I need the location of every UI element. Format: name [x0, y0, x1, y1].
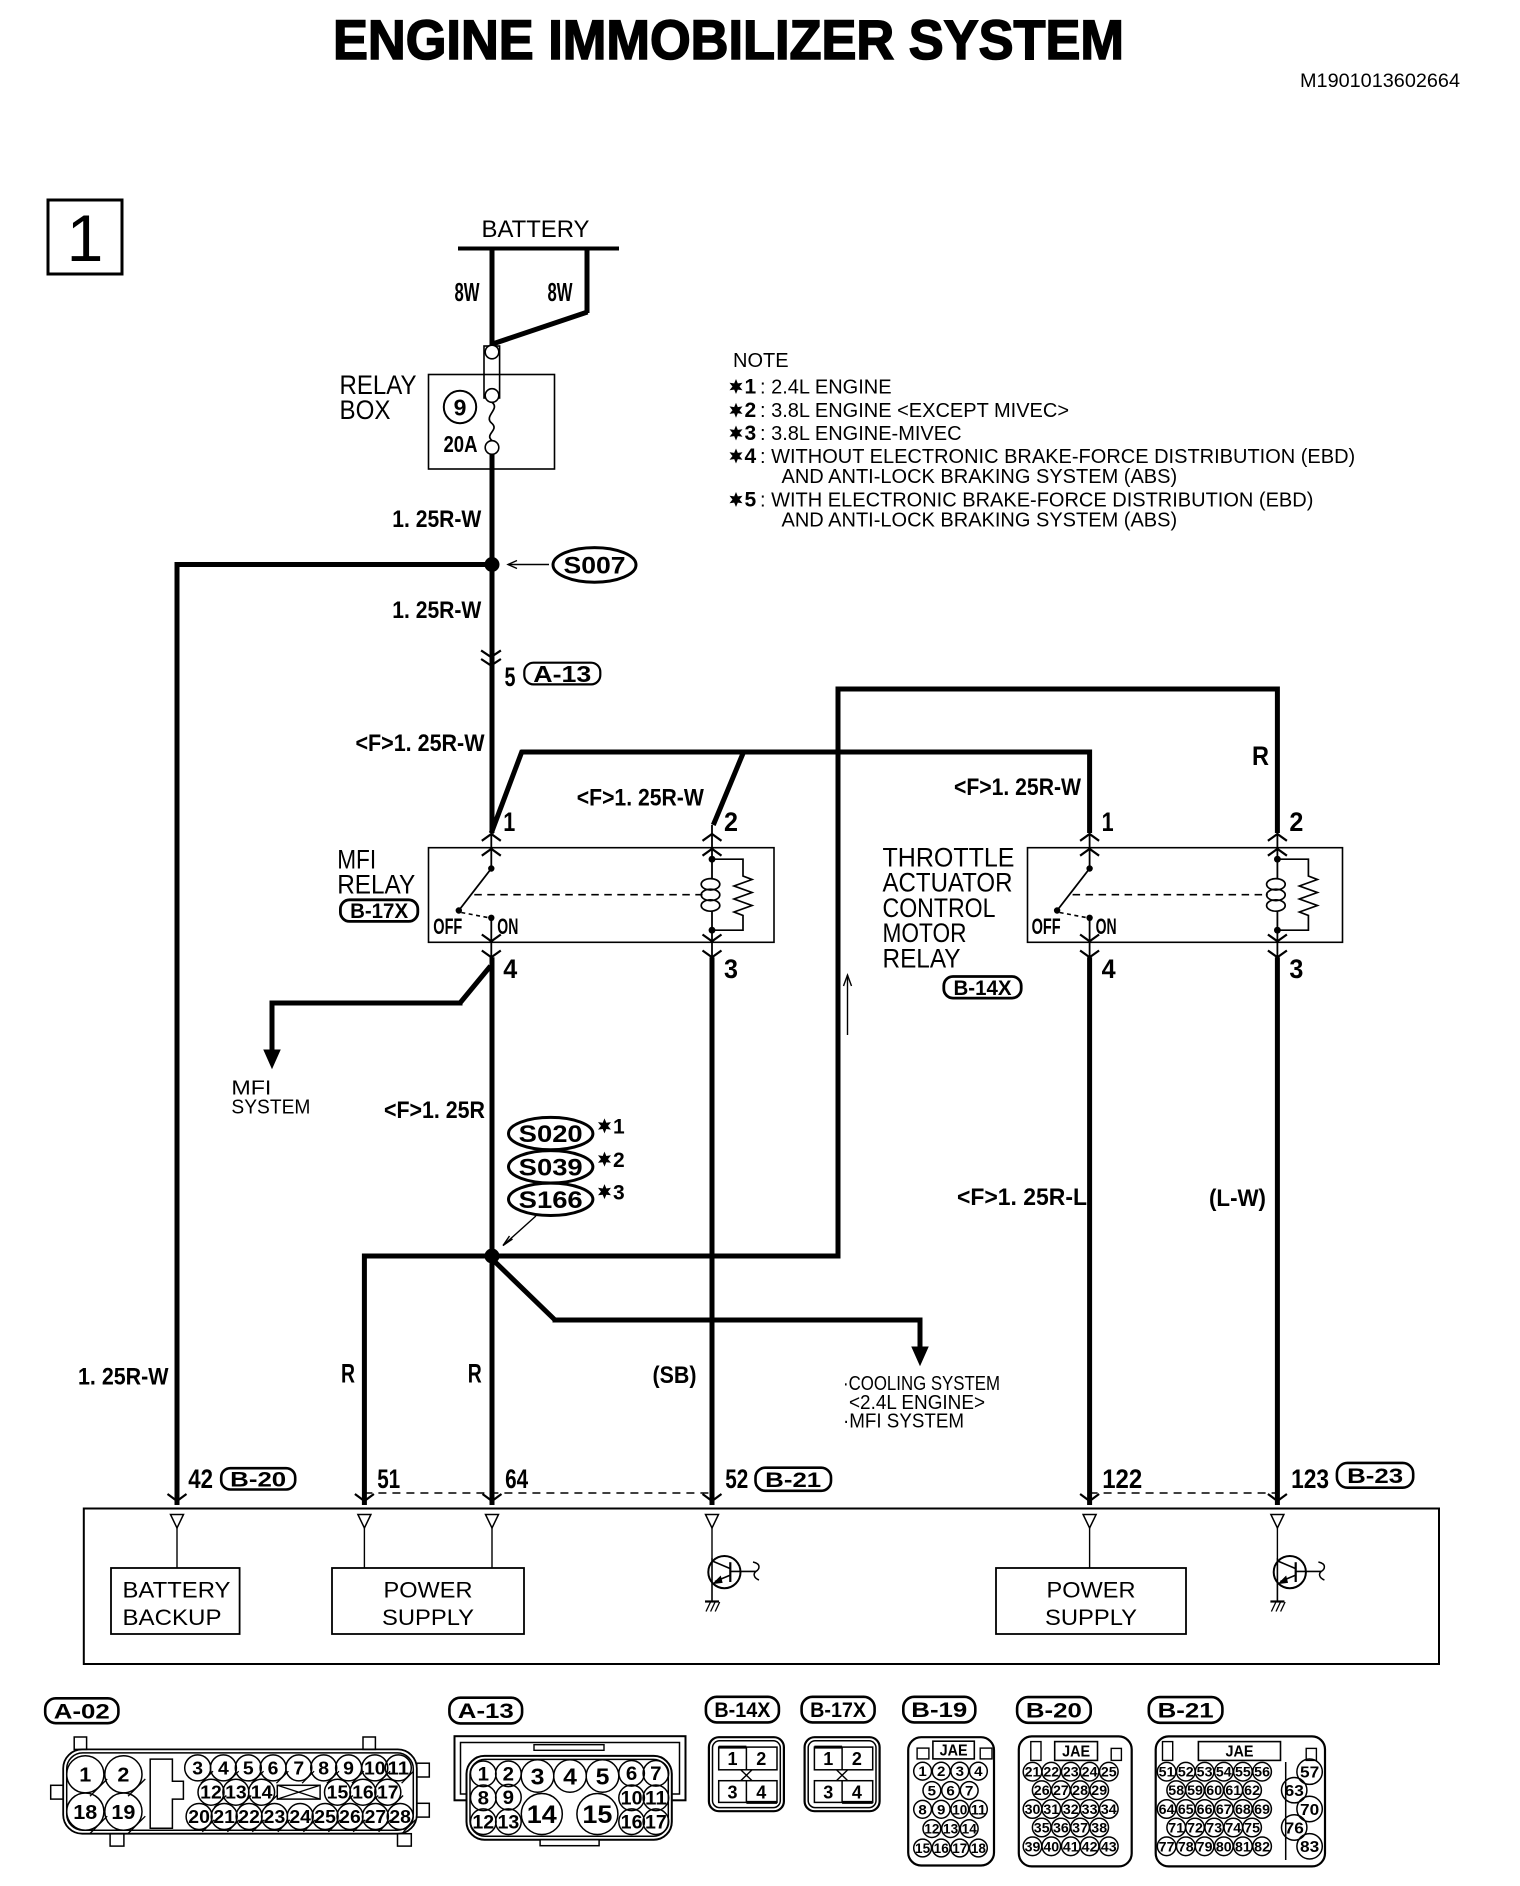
- svg-text:16: 16: [934, 1840, 949, 1856]
- switch ON contact dot: [1086, 915, 1092, 921]
- svg-text:25: 25: [1101, 1764, 1117, 1780]
- coil bottom node dot: [1274, 927, 1281, 934]
- note *1 bullet: [730, 379, 743, 394]
- svg-text:R: R: [341, 1359, 355, 1389]
- svg-text:70: 70: [1300, 1802, 1319, 1819]
- svg-text:22: 22: [1043, 1764, 1059, 1780]
- relay pin 4 terminal chevrons: [1080, 935, 1099, 942]
- svg-text:RELAY: RELAY: [883, 943, 961, 973]
- coil bottom lead: [711, 911, 713, 957]
- fuse 9 circle designator: [444, 391, 476, 423]
- connector B-21 cavities: [1157, 1762, 1176, 1781]
- connector B-21 housing: [1156, 1736, 1325, 1866]
- arrow from S007 label to junction: [508, 564, 549, 566]
- connector B-21 JAE header: [1198, 1742, 1280, 1761]
- svg-text:6: 6: [946, 1783, 955, 1799]
- relay pin 4 terminal chevrons: [482, 935, 501, 942]
- svg-text:9: 9: [454, 395, 467, 421]
- svg-text:23: 23: [1063, 1764, 1079, 1780]
- relay internal resistor: [712, 859, 752, 930]
- svg-text:·MFI SYSTEM: ·MFI SYSTEM: [843, 1410, 964, 1433]
- relay pin 3 terminal chevrons: [1268, 935, 1287, 942]
- wire MFI relay pin 4 down to splice: [490, 957, 495, 1258]
- wire end chevron pin 123: [1268, 1494, 1287, 1501]
- svg-text:72: 72: [1187, 1820, 1203, 1836]
- svg-text:52: 52: [1178, 1764, 1194, 1780]
- svg-text:2: 2: [613, 1149, 625, 1172]
- svg-text:73: 73: [1206, 1820, 1222, 1836]
- connector B-17X housing: [805, 1737, 880, 1811]
- connector A-02 cavities row 1 (3-11): [185, 1755, 211, 1781]
- svg-text:11: 11: [971, 1801, 986, 1817]
- ECU pin triangle marker: [486, 1515, 499, 1529]
- note *2 bullet: [730, 403, 743, 418]
- svg-text:1: 1: [823, 1749, 833, 1769]
- svg-text:26: 26: [339, 1807, 361, 1827]
- svg-text:71: 71: [1168, 1820, 1184, 1836]
- wire 8W right from battery: [585, 249, 590, 314]
- connector B-21 label box at pin 52: [756, 1468, 832, 1491]
- relay coil windings: [1267, 879, 1286, 890]
- battery bus bar: [458, 247, 619, 251]
- svg-text:SUPPLY: SUPPLY: [1045, 1605, 1137, 1630]
- relay pin 1 lead into switch: [1089, 833, 1091, 869]
- relay coil actuation dashed link: [1073, 894, 1268, 896]
- svg-text:7: 7: [965, 1783, 974, 1799]
- svg-text:2: 2: [724, 807, 738, 837]
- svg-text:21: 21: [1025, 1764, 1041, 1780]
- BATTERY BACKUP block: [111, 1568, 240, 1634]
- note marker *2 for S039: [598, 1152, 611, 1167]
- svg-text:12: 12: [924, 1821, 939, 1837]
- svg-text:12: 12: [200, 1783, 222, 1803]
- svg-text:16: 16: [352, 1783, 374, 1803]
- svg-text:19: 19: [111, 1802, 135, 1824]
- connector B-20 cavities: [1023, 1762, 1042, 1781]
- svg-text:66: 66: [1197, 1801, 1213, 1817]
- wire diagonal into MFI relay pin 2: [713, 751, 744, 826]
- svg-text:4: 4: [974, 1763, 983, 1779]
- svg-text:: 3.8L ENGINE-MIVEC: : 3.8L ENGINE-MIVEC: [760, 423, 962, 445]
- connector B-19 housing: [908, 1737, 994, 1865]
- svg-text:OFF: OFF: [433, 914, 462, 939]
- svg-text:: 2.4L ENGINE: : 2.4L ENGINE: [760, 377, 892, 399]
- svg-text:21: 21: [213, 1807, 235, 1827]
- svg-text:5: 5: [745, 489, 757, 512]
- svg-text:10: 10: [621, 1789, 643, 1810]
- connector B-21 cavity divider: [1285, 1762, 1287, 1860]
- svg-text:51: 51: [1159, 1764, 1175, 1780]
- svg-text:B-20: B-20: [230, 1468, 286, 1491]
- wire branch down with arrow to MFI SYSTEM: [270, 1001, 275, 1053]
- svg-text:1: 1: [613, 1116, 625, 1139]
- svg-text:39: 39: [1025, 1838, 1041, 1854]
- svg-text:80: 80: [1216, 1838, 1232, 1854]
- svg-text:9: 9: [937, 1801, 946, 1817]
- relay coil windings: [701, 879, 720, 890]
- relay box body: [429, 848, 775, 943]
- svg-text:1: 1: [918, 1763, 927, 1779]
- svg-text:64: 64: [1159, 1801, 1175, 1817]
- svg-text:3: 3: [956, 1763, 965, 1779]
- connector B-19 label box: [903, 1697, 975, 1723]
- coil top node dot: [709, 856, 716, 863]
- svg-text:67: 67: [1216, 1801, 1232, 1817]
- wire break chevrons at A-13 pass-through: [481, 650, 501, 657]
- svg-text:15: 15: [915, 1840, 930, 1856]
- svg-text:: WITHOUT ELECTRONIC BRAKE-FOR: : WITHOUT ELECTRONIC BRAKE-FORCE DISTRIB…: [760, 446, 1355, 468]
- ECU pin triangle marker: [1083, 1515, 1096, 1529]
- svg-text:42: 42: [188, 1464, 213, 1494]
- svg-text:52: 52: [725, 1464, 748, 1494]
- wire horizontal from S007 junction to left branch: [175, 562, 493, 567]
- svg-text:33: 33: [1082, 1801, 1098, 1817]
- connector B-20 label box at pin 42: [221, 1468, 295, 1489]
- svg-text:5: 5: [243, 1758, 254, 1778]
- connector B-20 label box: [1017, 1697, 1091, 1723]
- svg-text:75: 75: [1244, 1820, 1260, 1836]
- svg-text:4: 4: [756, 1783, 766, 1803]
- svg-text:2: 2: [1289, 807, 1303, 837]
- wire corner down to throttle relay pin 1: [1087, 750, 1092, 834]
- wire diagonal joining 8W wires: [491, 312, 588, 345]
- wire corner down to throttle relay pin 2: [1275, 687, 1280, 834]
- svg-text:B-14X: B-14X: [714, 1699, 770, 1722]
- svg-text:A-02: A-02: [54, 1700, 110, 1723]
- wire branch horizontal to MFI SYSTEM arrow: [272, 1001, 463, 1006]
- switch common contact dot: [1086, 865, 1092, 871]
- svg-text:17: 17: [377, 1783, 399, 1803]
- svg-text:82: 82: [1254, 1838, 1270, 1854]
- svg-text:14: 14: [527, 1801, 557, 1829]
- svg-text:2: 2: [745, 399, 757, 422]
- svg-text:B-21: B-21: [765, 1469, 821, 1492]
- svg-text:ENGINE IMMOBILIZER SYSTEM: ENGINE IMMOBILIZER SYSTEM: [333, 8, 1124, 71]
- svg-text:37: 37: [1072, 1820, 1088, 1836]
- svg-text:1: 1: [478, 1765, 490, 1786]
- svg-text:41: 41: [1063, 1838, 1079, 1854]
- svg-text:1: 1: [1102, 807, 1114, 837]
- svg-text:54: 54: [1216, 1764, 1232, 1780]
- ECU pin triangle marker: [1271, 1515, 1284, 1529]
- svg-text:AND ANTI-LOCK BRAKING SYSTEM (: AND ANTI-LOCK BRAKING SYSTEM (ABS): [782, 510, 1178, 532]
- svg-text:25: 25: [314, 1807, 336, 1827]
- svg-text:NOTE: NOTE: [733, 350, 789, 372]
- svg-text:62: 62: [1244, 1782, 1260, 1798]
- note marker *3 for S166: [598, 1184, 611, 1199]
- svg-text:4: 4: [218, 1758, 229, 1778]
- svg-text:2: 2: [117, 1765, 129, 1787]
- svg-text:76: 76: [1285, 1820, 1304, 1837]
- svg-text:79: 79: [1197, 1838, 1213, 1854]
- svg-text:8: 8: [478, 1789, 489, 1810]
- svg-text:35: 35: [1034, 1820, 1050, 1836]
- lead pin42 to battery backup: [176, 1528, 178, 1568]
- svg-text:BACKUP: BACKUP: [123, 1605, 222, 1630]
- switch ON contact dot: [488, 915, 494, 921]
- svg-text:<F>1. 25R: <F>1. 25R: [384, 1097, 485, 1124]
- svg-text:SYSTEM: SYSTEM: [231, 1096, 310, 1119]
- connector B-19 cavities: [914, 1762, 932, 1780]
- svg-text:2: 2: [852, 1749, 862, 1769]
- wire end chevron pin 52: [703, 1494, 722, 1501]
- svg-text:6: 6: [268, 1758, 279, 1778]
- svg-text:POWER: POWER: [384, 1578, 473, 1603]
- svg-text:OFF: OFF: [1032, 914, 1061, 939]
- connector splice S020 oval: [509, 1117, 593, 1149]
- relay pin 2 terminal chevrons: [1268, 834, 1287, 841]
- svg-text:13: 13: [225, 1783, 247, 1803]
- ECU box outline: [84, 1509, 1439, 1665]
- node S007 junction dot: [485, 557, 500, 572]
- svg-text:<F>1. 25R-L: <F>1. 25R-L: [957, 1184, 1087, 1211]
- switch common contact dot: [488, 865, 494, 871]
- relay pin 2 lead into coil: [1276, 825, 1278, 878]
- svg-text:13: 13: [498, 1813, 520, 1834]
- connector A-02 cavities row 2 (12-17): [198, 1779, 224, 1805]
- svg-text:B-17X: B-17X: [350, 900, 408, 923]
- lead pin51 to power supply: [363, 1528, 365, 1568]
- svg-text:58: 58: [1168, 1782, 1184, 1798]
- wire diagonal into MFI relay pin 1: [491, 751, 522, 834]
- svg-text:: WITH ELECTRONIC BRAKE-FORCE: : WITH ELECTRONIC BRAKE-FORCE DISTRIBUTI…: [760, 490, 1313, 512]
- svg-text:18: 18: [971, 1840, 986, 1856]
- connector A-02 mounting tabs: [74, 1737, 86, 1749]
- wire cooling branch down with arrow: [918, 1318, 923, 1350]
- coil top node dot: [1274, 856, 1281, 863]
- svg-text:<F>1. 25R-W: <F>1. 25R-W: [356, 730, 485, 757]
- svg-text:27: 27: [365, 1807, 387, 1827]
- connector A-02 large cavities 1 2 18 19: [67, 1756, 104, 1793]
- svg-text:3: 3: [1289, 954, 1303, 984]
- wire end chevron pin 64: [483, 1494, 502, 1501]
- connector B-20 JAE header: [1055, 1742, 1098, 1761]
- svg-text:S166: S166: [519, 1187, 583, 1214]
- connector A-02 label box: [45, 1698, 118, 1723]
- switch OFF-ON dashed throw: [461, 913, 489, 918]
- svg-text:17: 17: [645, 1813, 667, 1834]
- connector A-13 label box: [449, 1698, 522, 1724]
- relay pin 2 terminal chevrons: [703, 834, 722, 841]
- dashed connector grouping line pins 51-64-52: [364, 1492, 712, 1494]
- svg-text:M1901013602664: M1901013602664: [1300, 70, 1460, 92]
- svg-text:3: 3: [531, 1763, 545, 1789]
- svg-text:1: 1: [79, 1765, 91, 1787]
- coil bottom lead: [1276, 911, 1278, 957]
- svg-text:B-19: B-19: [911, 1699, 967, 1722]
- wire 8W left from battery: [490, 249, 495, 346]
- svg-text:S020: S020: [519, 1121, 583, 1148]
- svg-text:B-14X: B-14X: [954, 977, 1012, 1000]
- svg-text:4: 4: [745, 445, 757, 468]
- svg-text:S007: S007: [564, 553, 626, 580]
- connector A-13 inline label box: [524, 663, 600, 685]
- connector B-14X housing: [709, 1737, 784, 1811]
- relay pin 1 terminal chevrons: [1080, 834, 1099, 841]
- svg-text:27: 27: [1053, 1782, 1069, 1798]
- connector B-14X label box: [706, 1697, 779, 1723]
- wire feed horizontal to relay pins: [521, 750, 1090, 755]
- relay box body: [1028, 848, 1343, 943]
- svg-text:56: 56: [1254, 1764, 1270, 1780]
- svg-text:4: 4: [503, 954, 517, 984]
- switch ON lead to pin 4: [1089, 918, 1091, 958]
- switch arm (shown OFF): [459, 869, 492, 911]
- svg-text:15: 15: [327, 1783, 349, 1803]
- connector A-02 blanked cavity crossbox: [277, 1785, 320, 1799]
- note marker *1 for S020: [598, 1118, 611, 1133]
- lead pin122 to power supply: [1089, 1528, 1091, 1568]
- svg-text:6: 6: [626, 1764, 637, 1785]
- svg-text:AND ANTI-LOCK BRAKING SYSTEM (: AND ANTI-LOCK BRAKING SYSTEM (ABS): [782, 466, 1178, 488]
- ECU pin triangle marker: [358, 1515, 371, 1529]
- svg-text:5: 5: [928, 1783, 937, 1799]
- svg-text:<F>1. 25R-W: <F>1. 25R-W: [954, 774, 1081, 801]
- relay pin 1 lead into switch: [490, 833, 492, 869]
- svg-text:3: 3: [727, 1783, 737, 1803]
- svg-text:B-17X: B-17X: [810, 1699, 866, 1722]
- svg-text:12: 12: [472, 1813, 494, 1834]
- svg-text:1: 1: [745, 376, 757, 399]
- wire from fuse through S007 junction down to MFI relay pin 1: [490, 454, 495, 833]
- arrow from splice ovals to junction: [503, 1216, 536, 1246]
- svg-text:7: 7: [293, 1758, 304, 1778]
- svg-text:2: 2: [756, 1749, 766, 1769]
- wire end chevron pin 122: [1080, 1494, 1099, 1501]
- svg-text:57: 57: [1300, 1765, 1319, 1782]
- svg-text:59: 59: [1187, 1782, 1203, 1798]
- connector B-14X label box: [944, 977, 1021, 999]
- connector B-21 side cavities: [1297, 1759, 1322, 1784]
- svg-text:29: 29: [1091, 1782, 1107, 1798]
- connector B-17X cavity grid: [814, 1747, 872, 1770]
- svg-text:BOX: BOX: [340, 395, 391, 425]
- svg-text:A-13: A-13: [533, 661, 591, 687]
- node splice junction dot: [485, 1249, 500, 1264]
- relay internal resistor: [1277, 859, 1317, 930]
- svg-text:3: 3: [745, 422, 757, 445]
- relay coil actuation dashed link: [474, 894, 702, 896]
- svg-text:17: 17: [952, 1840, 967, 1856]
- svg-text:40: 40: [1043, 1838, 1059, 1854]
- connector A-13 housing: [467, 1756, 672, 1840]
- svg-text:3: 3: [823, 1783, 833, 1803]
- svg-text:24: 24: [1082, 1764, 1098, 1780]
- ground symbol: [1270, 1600, 1284, 1602]
- svg-text:SUPPLY: SUPPLY: [382, 1605, 474, 1630]
- connector A-13 rear shell: [455, 1736, 686, 1800]
- svg-text:: 3.8L ENGINE <EXCEPT MIVEC>: : 3.8L ENGINE <EXCEPT MIVEC>: [760, 400, 1069, 422]
- wire pin 64 down from junction: [490, 1256, 495, 1505]
- wire left branch down to pin 42: [175, 562, 180, 1505]
- connector A-02 keyway: [150, 1759, 183, 1828]
- fusible link connector (two circles in housing): [484, 346, 500, 398]
- transistor output driver: [1274, 1556, 1306, 1588]
- svg-text:14: 14: [962, 1821, 977, 1837]
- svg-text:<F>1. 25R-W: <F>1. 25R-W: [577, 785, 704, 812]
- svg-text:5: 5: [596, 1763, 610, 1789]
- svg-text:14: 14: [251, 1783, 273, 1803]
- svg-text:28: 28: [389, 1807, 411, 1827]
- svg-text:4: 4: [1102, 954, 1116, 984]
- svg-text:11: 11: [388, 1758, 410, 1778]
- svg-text:61: 61: [1225, 1782, 1241, 1798]
- svg-text:(L-W): (L-W): [1209, 1185, 1266, 1212]
- svg-text:A-13: A-13: [458, 1700, 514, 1723]
- svg-text:10: 10: [952, 1801, 967, 1817]
- svg-text:53: 53: [1197, 1764, 1213, 1780]
- switch OFF-ON dashed throw: [1060, 913, 1088, 918]
- note *5 bullet: [730, 492, 743, 507]
- wire end chevron pin 51: [355, 1494, 374, 1501]
- annotation up arrow beside splice feed wire: [847, 975, 849, 1035]
- svg-text:3: 3: [613, 1181, 625, 1204]
- dashed connector grouping line pins 122-123: [1090, 1492, 1278, 1494]
- svg-text:31: 31: [1043, 1801, 1059, 1817]
- svg-text:7: 7: [650, 1764, 661, 1785]
- svg-text:JAE: JAE: [940, 1743, 968, 1760]
- svg-text:63: 63: [1285, 1783, 1304, 1800]
- switch ON lead to pin 4: [490, 918, 492, 958]
- svg-text:BATTERY: BATTERY: [123, 1578, 231, 1603]
- fuse element squiggle: [489, 402, 494, 440]
- svg-text:JAE: JAE: [1226, 1744, 1254, 1761]
- wire throttle pin 3 down to pin 123: [1275, 957, 1280, 1505]
- relay box outline: [429, 375, 555, 470]
- svg-text:4: 4: [852, 1783, 862, 1803]
- svg-text:123: 123: [1291, 1464, 1329, 1494]
- svg-text:16: 16: [621, 1813, 643, 1834]
- svg-text:8: 8: [918, 1801, 927, 1817]
- lead pin64 to power supply: [491, 1528, 493, 1568]
- svg-text:74: 74: [1225, 1820, 1241, 1836]
- svg-text:1: 1: [727, 1749, 737, 1769]
- svg-text:R: R: [1252, 741, 1269, 771]
- svg-text:5: 5: [505, 662, 516, 692]
- svg-text:42: 42: [1082, 1838, 1098, 1854]
- svg-text:ON: ON: [497, 914, 518, 939]
- POWER SUPPLY block left: [332, 1568, 524, 1634]
- svg-text:3: 3: [724, 954, 738, 984]
- note *3 bullet: [730, 426, 743, 441]
- svg-text:55: 55: [1235, 1764, 1251, 1780]
- svg-text:22: 22: [238, 1807, 260, 1827]
- svg-text:1: 1: [67, 201, 104, 275]
- svg-text:10: 10: [364, 1758, 386, 1778]
- connector splice S166 oval: [509, 1183, 593, 1215]
- wire end chevron pin 42: [168, 1494, 187, 1501]
- svg-text:9: 9: [503, 1788, 514, 1809]
- connector A-02 cavities row 3 (20-28): [186, 1804, 212, 1830]
- connector A-13 bottom tab: [540, 1840, 599, 1846]
- svg-text:26: 26: [1034, 1782, 1050, 1798]
- svg-text:B-20: B-20: [1026, 1700, 1082, 1723]
- wire top horizontal to throttle relay pin 2: [838, 687, 1277, 692]
- svg-text:1. 25R-W: 1. 25R-W: [78, 1363, 169, 1390]
- svg-text:68: 68: [1235, 1801, 1251, 1817]
- svg-text:64: 64: [505, 1464, 528, 1494]
- relay pin 2 lead into coil: [711, 825, 713, 878]
- svg-text:78: 78: [1178, 1838, 1194, 1854]
- svg-text:11: 11: [645, 1789, 667, 1810]
- svg-text:POWER: POWER: [1047, 1578, 1136, 1603]
- svg-text:S039: S039: [519, 1154, 583, 1181]
- svg-text:43: 43: [1101, 1838, 1117, 1854]
- svg-text:2: 2: [503, 1765, 514, 1786]
- svg-text:36: 36: [1053, 1820, 1069, 1836]
- relay pin 3 terminal chevrons: [703, 935, 722, 942]
- connector B-21 label box: [1149, 1697, 1223, 1723]
